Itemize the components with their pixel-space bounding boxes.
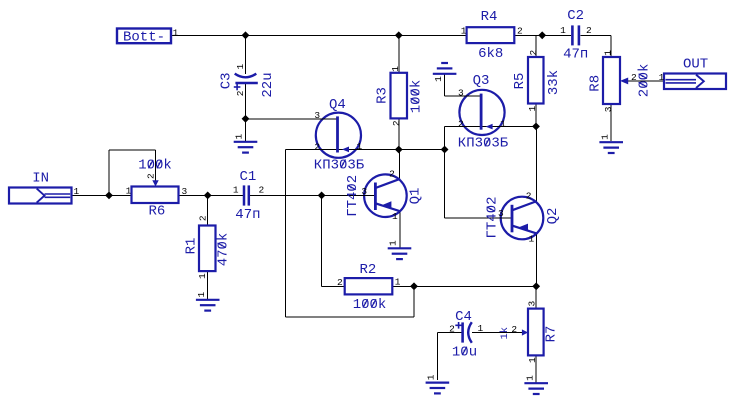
label C1: [239, 169, 256, 185]
wire C3 pin2 down to node: [245, 83, 247, 119]
svg-text:2: 2: [511, 324, 517, 335]
svg-text:2: 2: [391, 120, 402, 126]
label R5: [512, 73, 528, 90]
wire top rail down to C3 pin1: [245, 35, 247, 74]
wire R2 pin1 to node: [392, 285, 414, 287]
pin 2 of Q4: [314, 141, 320, 152]
wire Q1 emitter down to ground: [399, 212, 401, 248]
svg-text:3: 3: [314, 110, 320, 121]
value 22u of C3: [260, 72, 276, 97]
label Q2: [545, 208, 561, 225]
svg-text:IN: IN: [32, 171, 49, 187]
wire Q3 pin2 down to base node of Q2: [444, 126, 446, 218]
svg-text:C2: C2: [567, 8, 584, 24]
pin 1 of inverted ground: [433, 76, 444, 82]
svg-text:R5: R5: [512, 73, 528, 90]
value 6k8 of R4: [478, 46, 503, 62]
pin 2 of C2: [586, 25, 592, 36]
ground under R1: [196, 300, 220, 311]
wire C4 pin2 corner: [437, 332, 461, 334]
svg-text:1: 1: [524, 375, 535, 381]
wire R8 pin3 down to ground: [610, 104, 612, 141]
pin 3 of Q1: [361, 186, 367, 197]
transistor Q3 internals: [481, 94, 493, 130]
value ГТ402 of Q2: [485, 196, 501, 238]
pin 1 of R4: [461, 25, 467, 36]
wire top rail down to R5 pin2: [535, 35, 537, 57]
svg-text:R8: R8: [588, 75, 604, 92]
svg-text:1: 1: [392, 211, 398, 222]
wire R1 pin1 down to ground: [207, 272, 209, 299]
resistor R5 body: [528, 57, 544, 104]
svg-text:1: 1: [659, 72, 665, 83]
svg-text:2: 2: [258, 185, 264, 196]
label C3: [218, 72, 234, 89]
ground under Q1: [388, 248, 412, 259]
svg-text:R3: R3: [374, 87, 390, 104]
junction R2 / feedback: [410, 282, 418, 290]
svg-text:1: 1: [602, 50, 613, 56]
pin 3 of Q2: [498, 208, 504, 219]
port OUT symbol: [664, 74, 726, 90]
junction IN / loop: [105, 192, 113, 200]
wire node down to R7 pin3: [535, 286, 537, 308]
svg-text:1: 1: [126, 186, 132, 197]
svg-text:2: 2: [449, 324, 455, 335]
svg-text:1: 1: [599, 134, 610, 140]
pin 3 of R6: [181, 186, 187, 197]
junction Q4 line / Q3 branch: [441, 146, 449, 154]
svg-text:3: 3: [181, 186, 187, 197]
wire R4 pin2 to C2 pin1: [514, 34, 571, 36]
svg-text:2: 2: [631, 72, 637, 83]
wire Q4 source line (pin2 to pin1 node): [286, 149, 445, 151]
svg-text:1: 1: [390, 66, 401, 72]
junction Q3 / R5 / Q2 collector: [532, 123, 540, 131]
svg-text:3: 3: [498, 208, 504, 219]
pin 2 of Q2: [526, 191, 532, 202]
capacitor C4 symbol (electrolytic): [455, 322, 472, 343]
svg-text:1: 1: [500, 118, 506, 129]
wire C1 pin2 to Q1 base: [249, 194, 376, 196]
svg-text:Bott-: Bott-: [123, 30, 165, 46]
label R6: [148, 204, 165, 220]
junction Q1 base node: [318, 192, 326, 200]
svg-text:КП303Б: КП303Б: [314, 157, 365, 173]
value 47n of C2: [563, 46, 588, 62]
wire loop up from IN node: [108, 150, 110, 195]
wire node down to ground under C3: [245, 119, 247, 141]
potentiometer R7 body: [522, 309, 544, 356]
transistor Q4 body (JFET КП303Б): [316, 113, 361, 158]
label R4: [481, 9, 498, 25]
pin 2 of R1: [197, 215, 208, 221]
svg-text:1: 1: [196, 291, 207, 297]
svg-text:1: 1: [527, 105, 538, 111]
transistor Q1 body (ГТ402): [364, 174, 407, 217]
pin 2 of R3: [391, 120, 402, 126]
label IN: [32, 171, 49, 187]
transistor Q3 body (JFET КП303Б): [459, 90, 504, 135]
pin 2 of Q1: [389, 168, 395, 179]
svg-text:2: 2: [528, 50, 539, 56]
resistor R1 body: [199, 226, 216, 272]
svg-text:3: 3: [526, 300, 537, 306]
pin 1 of ground under R1: [196, 291, 207, 297]
svg-text:1: 1: [478, 323, 484, 334]
svg-text:22u: 22u: [260, 72, 276, 97]
svg-text:Q4: Q4: [329, 97, 346, 113]
pin 1 of C4: [478, 323, 484, 334]
svg-text:1: 1: [357, 141, 363, 152]
svg-text:2: 2: [197, 215, 208, 221]
svg-text:2: 2: [337, 277, 343, 288]
svg-text:1k: 1k: [499, 327, 511, 340]
junction C3 / ground / Q4 gate: [242, 115, 250, 123]
pin 2 of C3: [235, 90, 246, 96]
capacitor C1 symbol: [244, 185, 249, 205]
junction rail / C2-R5: [538, 31, 546, 39]
wire Q2 emitter down to node: [536, 234, 538, 286]
wire R5 pin1 down to node: [535, 104, 537, 127]
svg-text:470k: 470k: [215, 233, 231, 267]
capacitor C3 symbol: [234, 74, 258, 91]
wire to Q2 base: [445, 217, 513, 219]
wire Q1 base node down: [321, 195, 323, 286]
wire Q3 drain line (pin2 to pin1): [445, 125, 536, 127]
svg-text:C3: C3: [218, 72, 234, 89]
wire Q4 pin2 corner down: [285, 150, 287, 318]
ground under R8: [599, 142, 623, 153]
pin 2 of C4: [449, 324, 455, 335]
pin 1 of IN: [74, 186, 80, 197]
ground under C4: [426, 383, 450, 394]
resistor R3 body: [391, 73, 408, 119]
pin 1 of Q3: [500, 118, 506, 129]
label Q3: [473, 73, 490, 89]
svg-text:C1: C1: [239, 169, 256, 185]
resistor R2 body: [345, 278, 393, 294]
svg-text:47п: 47п: [563, 46, 588, 62]
label C4: [455, 309, 472, 325]
junction Q4 line / Q1 collector / R3: [395, 146, 403, 154]
svg-text:2: 2: [586, 25, 592, 36]
svg-text:2: 2: [389, 168, 395, 179]
value 470k of R1: [215, 233, 231, 267]
pin 2 of R2: [337, 277, 343, 288]
capacitor C2 symbol: [572, 25, 579, 45]
svg-text:100k: 100k: [353, 297, 387, 313]
pin 2 of Q3: [458, 119, 464, 130]
wire C2 corner down to R8 pin1: [610, 35, 612, 57]
label R8: [588, 75, 604, 92]
label Q1: [408, 188, 424, 205]
pin 1 of Bott-: [173, 27, 179, 38]
value ГТ402 of Q1: [345, 175, 361, 217]
value 33k of R5: [546, 70, 562, 95]
pin 1 of OUT: [659, 72, 665, 83]
svg-text:6k8: 6k8: [478, 46, 503, 62]
wire R7 pin1 down to ground: [535, 355, 537, 382]
wire R3 pin2 down to node: [398, 118, 400, 149]
pin 1 of ground under C4: [426, 374, 437, 380]
junction R7 / Q2 emitter: [532, 282, 540, 290]
wire node down to Q1 collector: [399, 150, 401, 180]
svg-text:100k: 100k: [408, 80, 424, 114]
svg-text:10u: 10u: [452, 345, 477, 361]
svg-text:R7: R7: [543, 326, 559, 343]
svg-text:1: 1: [388, 240, 399, 246]
wire to R2 pin2: [322, 285, 345, 287]
pin 3 of R7: [526, 300, 537, 306]
pin 1 of R3: [390, 66, 401, 72]
wire R1 node down to R1 pin2: [207, 195, 209, 225]
svg-text:Q1: Q1: [408, 188, 424, 205]
svg-text:200k: 200k: [636, 64, 652, 98]
pin 1 of R6: [126, 186, 132, 197]
value КП303Б of Q4: [314, 157, 365, 173]
svg-text:2: 2: [145, 173, 156, 179]
svg-text:1: 1: [74, 186, 80, 197]
svg-text:2: 2: [235, 90, 246, 96]
pin 1 of Q4: [357, 141, 363, 152]
pin 3 of Q3: [458, 87, 464, 98]
svg-text:1: 1: [173, 27, 179, 38]
pin 1 of R2: [395, 277, 401, 288]
potentiometer R8 body: [603, 57, 628, 104]
label R2: [359, 262, 376, 278]
label R1: [183, 238, 199, 255]
wire bottom feedback run: [286, 316, 414, 318]
junction rail / R3: [395, 31, 403, 39]
pin 1 of C2: [560, 25, 566, 36]
pin 1 of C1: [233, 185, 239, 196]
label R7: [543, 326, 559, 343]
svg-text:1: 1: [234, 133, 245, 139]
pin 1 of ground under Q1: [388, 240, 399, 246]
wire R8 wiper to OUT port: [628, 80, 664, 82]
svg-text:ГТ402: ГТ402: [345, 175, 361, 217]
svg-text:КП303Б: КП303Б: [458, 136, 509, 152]
svg-text:R4: R4: [481, 9, 498, 25]
wire Q3 gate horizontal: [445, 95, 482, 97]
label C2: [567, 8, 584, 24]
svg-text:2: 2: [314, 141, 320, 152]
svg-text:100k: 100k: [138, 158, 172, 174]
resistor R4 body: [467, 27, 515, 43]
svg-text:3: 3: [603, 106, 614, 112]
wire C2 pin2 to R8 top corner: [580, 34, 611, 36]
svg-text:1: 1: [527, 357, 538, 363]
transistor Q2 internals: [512, 201, 537, 234]
junction Bott- rail / C3: [242, 31, 250, 39]
pin 2 of R7 (wiper): [511, 324, 517, 335]
wire loop top over R6: [109, 149, 156, 151]
pin 2 of R4: [517, 25, 523, 36]
svg-text:Q2: Q2: [545, 208, 561, 225]
wire IN port to R6 pin1: [72, 194, 132, 196]
pin 1 of R1: [197, 273, 208, 279]
value 100k of R6: [138, 158, 172, 174]
svg-text:2: 2: [526, 191, 532, 202]
svg-text:2: 2: [517, 25, 523, 36]
pin 2 of C1: [258, 185, 264, 196]
port IN symbol: [9, 188, 72, 204]
label Bott-: [123, 30, 165, 46]
wire R6 pin3 to R1 node: [179, 194, 245, 196]
transistor Q2 body (ГТ402): [501, 197, 544, 240]
wire node down to Q2 collector: [536, 126, 538, 201]
port Bott- symbol: [117, 29, 171, 44]
svg-text:1: 1: [197, 273, 208, 279]
wire node to Q4 gate: [246, 118, 338, 120]
svg-text:C4: C4: [455, 309, 472, 325]
svg-text:1: 1: [426, 374, 437, 380]
pin 1 of ground under C3: [234, 133, 245, 139]
svg-text:2: 2: [458, 119, 464, 130]
label Q4: [329, 97, 346, 113]
transistor Q4 internals: [338, 116, 350, 152]
value 47n of C1: [235, 207, 260, 223]
pin 1 of R8: [602, 50, 613, 56]
svg-text:1: 1: [529, 233, 535, 244]
pin 1 of R5: [527, 105, 538, 111]
wire top rail down to R3 pin1: [398, 35, 400, 73]
value 1k of R7: [499, 327, 511, 340]
svg-text:1: 1: [461, 25, 467, 36]
pin 1 of ground under R8: [599, 134, 610, 140]
value 200k of R8: [636, 64, 652, 98]
label R3: [374, 87, 390, 104]
svg-text:Q3: Q3: [473, 73, 490, 89]
pin 2 of R6 (wiper): [145, 173, 156, 179]
transistor Q1 internals: [375, 179, 400, 212]
wire Bott- to R4 pin1 (top rail): [171, 34, 467, 36]
potentiometer R6 body: [132, 180, 179, 203]
value 100k of R2: [353, 297, 387, 313]
ground under R7: [524, 383, 548, 394]
pin 3 of R8: [603, 106, 614, 112]
svg-text:1: 1: [395, 277, 401, 288]
value 10u of C4: [452, 345, 477, 361]
wire loop down to R6 wiper: [155, 150, 157, 180]
pin 1 of C3: [235, 63, 246, 69]
svg-text:R1: R1: [183, 238, 199, 255]
svg-text:1: 1: [235, 63, 246, 69]
svg-text:1: 1: [560, 25, 566, 36]
svg-text:3: 3: [361, 186, 367, 197]
wire inverted ground down to Q3 gate: [444, 74, 446, 96]
pin 1 of Q1: [392, 211, 398, 222]
value 100k of R3: [408, 80, 424, 114]
pin 2 of R5: [528, 50, 539, 56]
svg-text:R6: R6: [148, 204, 165, 220]
svg-text:47п: 47п: [235, 207, 260, 223]
wire R2 node to R7 node: [414, 285, 536, 287]
wire up to R2 node: [413, 286, 415, 317]
ground under C3: [234, 142, 258, 153]
wire C4 corner down to ground: [436, 333, 438, 381]
pin 1 of ground under R7: [524, 375, 535, 381]
svg-text:OUT: OUT: [683, 56, 708, 72]
pin 3 of Q4: [314, 110, 320, 121]
svg-text:3: 3: [458, 87, 464, 98]
svg-text:33k: 33k: [546, 70, 562, 95]
wire C4 pin1 to R7 wiper: [472, 332, 522, 334]
svg-text:1: 1: [433, 76, 444, 82]
svg-text:1: 1: [233, 185, 239, 196]
pin 1 of Q2: [529, 233, 535, 244]
ground above Q3 (inverted): [433, 63, 457, 74]
pin 1 of R7: [527, 357, 538, 363]
value КП303Б of Q3: [458, 136, 509, 152]
junction R6 pin3 / R1: [204, 192, 212, 200]
label OUT: [683, 56, 708, 72]
svg-text:R2: R2: [359, 262, 376, 278]
pin 2 of R8 (wiper): [631, 72, 637, 83]
